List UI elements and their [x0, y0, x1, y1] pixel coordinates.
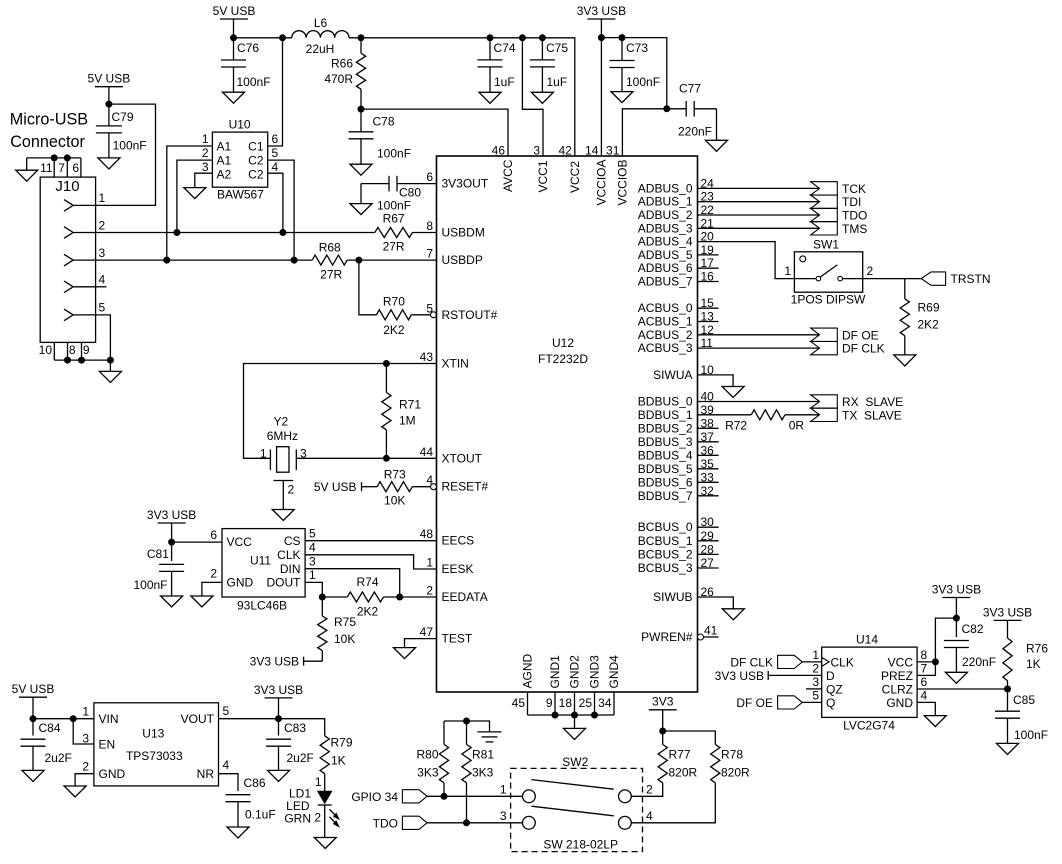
junction 5V/C76	[231, 35, 237, 41]
svg-text:41: 41	[704, 624, 718, 638]
svg-text:1K: 1K	[331, 754, 346, 768]
wire AVCC net	[361, 109, 508, 156]
wire to R74	[322, 596, 347, 598]
svg-text:C73: C73	[626, 41, 648, 55]
U14 QZ stub	[806, 688, 822, 690]
svg-text:100nF: 100nF	[133, 578, 167, 592]
svg-text:100nF: 100nF	[113, 138, 147, 152]
net flag DF CLK (out)	[811, 341, 838, 354]
wire XTIN net	[244, 364, 437, 459]
svg-text:PWREN#: PWREN#	[641, 630, 693, 644]
net flag TX SLAVE	[811, 408, 838, 421]
svg-text:VCC1: VCC1	[536, 160, 550, 192]
svg-text:ACBUS_2: ACBUS_2	[638, 328, 693, 342]
svg-text:3: 3	[82, 732, 89, 746]
svg-text:U11: U11	[250, 554, 271, 568]
svg-text:ADBUS_1: ADBUS_1	[638, 195, 693, 209]
junction USBDP/R70	[356, 257, 362, 263]
resistor R72 0R	[751, 410, 785, 420]
wire ACBUS_3 to DF CLK	[698, 347, 820, 349]
svg-text:TEST: TEST	[442, 632, 473, 646]
svg-text:C83: C83	[284, 721, 306, 735]
wire NR to C86	[219, 774, 239, 791]
svg-text:RESET#: RESET#	[442, 480, 489, 494]
IC U12 FT2232D body	[437, 156, 698, 692]
svg-text:ACBUS_0: ACBUS_0	[638, 301, 693, 315]
junction R81/TDO	[464, 820, 470, 826]
svg-text:48: 48	[420, 527, 434, 541]
svg-text:820R: 820R	[669, 766, 698, 780]
wire DF CLK to U14	[802, 661, 821, 663]
svg-text:100nF: 100nF	[377, 199, 411, 213]
svg-text:3V3 USB: 3V3 USB	[250, 655, 299, 669]
resistor R75 10K	[321, 597, 323, 616]
svg-text:2: 2	[82, 760, 89, 774]
svg-text:ADBUS_5: ADBUS_5	[638, 248, 693, 262]
net flag TDI	[811, 195, 838, 208]
svg-text:R73: R73	[384, 468, 406, 482]
junction USBDM/U10p2	[174, 230, 180, 236]
svg-text:EEDATA: EEDATA	[442, 590, 488, 604]
svg-text:2K2: 2K2	[918, 318, 940, 332]
svg-text:C86: C86	[244, 776, 266, 790]
svg-text:ADBUS_6: ADBUS_6	[638, 261, 693, 275]
wire 3V3 to R78	[663, 731, 716, 744]
svg-text:2: 2	[99, 218, 106, 232]
pin circle RSTOUT#	[431, 312, 437, 318]
wire U11 GND	[202, 582, 222, 596]
svg-text:4: 4	[223, 758, 230, 772]
svg-text:DOUT: DOUT	[267, 575, 302, 589]
svg-text:1K: 1K	[1026, 657, 1041, 671]
wire ADBUS to TCK	[698, 187, 820, 189]
svg-text:1: 1	[309, 568, 316, 582]
ground R69	[894, 355, 916, 366]
svg-text:1uF: 1uF	[547, 75, 568, 89]
svg-text:3: 3	[500, 809, 507, 823]
svg-text:BDBUS_6: BDBUS_6	[638, 475, 693, 489]
wire R68 to USBDP pin	[347, 259, 436, 261]
junction XTOUT/R71	[383, 455, 389, 461]
wire R80/R81 top	[444, 721, 490, 732]
wire DOUT to R74	[305, 582, 322, 597]
svg-text:1M: 1M	[399, 414, 416, 428]
svg-text:2: 2	[210, 567, 217, 581]
capacitor C74	[489, 38, 491, 60]
svg-text:J10: J10	[55, 178, 79, 195]
svg-text:27R: 27R	[383, 240, 405, 254]
junction C79/VBUS	[106, 101, 112, 107]
svg-text:TDO: TDO	[373, 816, 398, 830]
ground U13	[64, 786, 86, 797]
switch SW2 SW 218-02LP	[511, 768, 643, 851]
svg-text:5V USB: 5V USB	[213, 4, 256, 18]
wire CLRZ net	[917, 688, 1007, 690]
svg-text:34: 34	[598, 696, 612, 710]
svg-text:C85: C85	[1013, 693, 1035, 707]
svg-text:R68: R68	[319, 241, 341, 255]
power 3V3 USB (R76)	[994, 619, 1022, 621]
junction USBDP/U10p5	[291, 257, 297, 263]
wire J10 pin4 stub	[96, 286, 107, 288]
svg-text:BCBUS_1: BCBUS_1	[638, 534, 693, 548]
svg-text:C75: C75	[546, 41, 568, 55]
junction C81/VCC	[169, 539, 175, 545]
svg-text:QZ: QZ	[826, 682, 843, 696]
wire VCC up	[917, 618, 956, 662]
svg-text:U10: U10	[229, 118, 251, 132]
svg-text:GND3: GND3	[588, 655, 602, 689]
junction VCC1 tap	[519, 35, 525, 41]
svg-text:VCCIOB: VCCIOB	[615, 159, 629, 205]
svg-text:ACBUS_1: ACBUS_1	[638, 315, 693, 329]
svg-text:EESK: EESK	[442, 562, 474, 576]
net flag TMS	[811, 222, 838, 235]
svg-text:5V USB: 5V USB	[12, 682, 55, 696]
svg-text:XTIN: XTIN	[442, 357, 469, 371]
svg-text:100nF: 100nF	[377, 147, 411, 161]
wire GPIO34 to SW2.1	[427, 795, 522, 797]
svg-text:8: 8	[69, 343, 76, 357]
svg-text:SIWUA: SIWUA	[653, 368, 692, 382]
wire R74 to EEDATA	[384, 596, 437, 598]
wire CS to EECS	[305, 540, 436, 542]
svg-text:TMS: TMS	[842, 222, 867, 236]
wire ADBUS to TMS	[698, 227, 820, 229]
svg-text:C80: C80	[399, 186, 421, 200]
IC U14 LVC2G74	[822, 647, 917, 717]
resistor R67 27R	[375, 228, 413, 238]
wire BDBUS_1 to R72	[698, 414, 752, 416]
capacitor C76	[233, 38, 235, 60]
junction XTIN/R71	[383, 361, 389, 367]
ground C82	[945, 672, 967, 683]
resistor R70 2K2	[376, 310, 411, 320]
svg-text:VCCIOA: VCCIOA	[594, 159, 608, 205]
svg-text:5: 5	[812, 689, 819, 703]
IC U11 93LC46B	[222, 529, 305, 597]
svg-text:BDBUS_2: BDBUS_2	[638, 421, 693, 435]
svg-text:100nF: 100nF	[1014, 728, 1048, 742]
svg-text:GND: GND	[227, 575, 254, 589]
svg-text:42: 42	[558, 144, 572, 158]
wire J10 bottom gnd bus	[54, 359, 110, 361]
resistor R68 27R	[312, 255, 347, 265]
svg-text:R79: R79	[331, 736, 353, 750]
svg-text:8: 8	[921, 648, 928, 662]
capacitor C83	[278, 719, 280, 736]
junction GND2	[572, 712, 578, 718]
svg-text:3: 3	[812, 675, 819, 689]
svg-text:DF OE: DF OE	[736, 696, 773, 710]
junction R66 top	[358, 35, 364, 41]
resistor R69 2K2	[900, 299, 909, 336]
wire C80 to gnd	[360, 184, 362, 204]
svg-text:2: 2	[867, 264, 874, 278]
junction 3V3/VCCIOA	[598, 35, 604, 41]
svg-text:5: 5	[99, 301, 106, 315]
ground C84	[22, 770, 44, 781]
svg-text:C84: C84	[39, 721, 61, 735]
junction R81 top	[464, 718, 470, 724]
svg-text:18: 18	[559, 696, 573, 710]
wire 3V3 to C77 node	[601, 38, 666, 109]
svg-text:TPS73033: TPS73033	[126, 749, 183, 763]
ground C79	[98, 158, 120, 169]
svg-text:SW2: SW2	[562, 755, 588, 769]
svg-text:31: 31	[606, 144, 620, 158]
diode array U10 BAW567	[212, 132, 267, 187]
ground C76	[223, 92, 245, 103]
svg-text:SIWUB: SIWUB	[653, 590, 692, 604]
svg-text:VCC2: VCC2	[568, 161, 582, 193]
wire U10 pin6 to 5V	[268, 38, 283, 146]
svg-text:R72: R72	[725, 419, 747, 433]
earth ground R80/R81	[478, 731, 502, 733]
svg-text:44: 44	[420, 445, 434, 459]
svg-text:220nF: 220nF	[962, 655, 996, 669]
resistor R76 1K	[1003, 638, 1012, 681]
svg-text:R66: R66	[331, 57, 353, 71]
svg-text:NR: NR	[197, 767, 215, 781]
svg-text:5: 5	[272, 146, 279, 160]
svg-text:BDBUS_7: BDBUS_7	[638, 489, 693, 503]
junction USBDP/U10p1	[164, 257, 170, 263]
ground U10 A2	[184, 188, 206, 199]
wire VCC1 net	[522, 38, 543, 156]
wire VCC/PREZ tie	[917, 662, 935, 676]
ground Y2 case	[272, 510, 294, 521]
svg-text:3: 3	[99, 246, 106, 260]
junction 3V3/C82	[953, 615, 959, 621]
wire USBDP net	[96, 259, 313, 261]
svg-text:GND2: GND2	[568, 655, 582, 689]
svg-text:PREZ: PREZ	[881, 669, 913, 683]
inductor L6 22uH	[292, 31, 349, 38]
svg-text:8: 8	[426, 219, 433, 233]
svg-text:ADBUS_7: ADBUS_7	[638, 275, 693, 289]
svg-text:SW 218-02LP: SW 218-02LP	[543, 837, 618, 851]
junction pin8 gnd	[65, 357, 71, 363]
svg-text:C1: C1	[248, 139, 264, 153]
capacitor C79	[108, 104, 110, 126]
ground C83	[268, 770, 290, 781]
svg-text:VOUT: VOUT	[181, 712, 215, 726]
svg-text:1POS DIPSW: 1POS DIPSW	[791, 293, 866, 307]
svg-text:GND1: GND1	[548, 655, 562, 689]
wire U10 pin5 to USBDP	[268, 160, 294, 260]
power 3V3 (SW2)	[649, 709, 677, 711]
connector J10 Micro-USB	[40, 177, 95, 342]
wire ADBUS to TDO	[698, 214, 820, 216]
wire GND bus	[528, 714, 615, 716]
junction R80/GPIO34	[441, 793, 447, 799]
capacitor C75	[541, 38, 543, 60]
wire U10 pin1 to USBDP	[167, 146, 213, 260]
svg-text:9: 9	[546, 696, 553, 710]
wire VCCIOB net	[622, 109, 666, 156]
resistor R78 820R	[711, 744, 720, 782]
capacitor C78	[360, 109, 362, 132]
svg-text:VCC: VCC	[227, 535, 253, 549]
resistor R71 1M	[385, 364, 387, 393]
svg-text:R76: R76	[1026, 642, 1048, 656]
svg-text:A1: A1	[217, 139, 232, 153]
svg-text:ADBUS_0: ADBUS_0	[638, 181, 693, 195]
wire R73 to RESET#	[412, 486, 430, 488]
ground C81	[161, 596, 183, 607]
svg-text:RSTOUT#: RSTOUT#	[442, 308, 498, 322]
junction C74	[487, 35, 493, 41]
wire 3V3 to U11 VCC	[172, 541, 222, 543]
net flag TCK	[811, 182, 838, 195]
svg-text:CLK: CLK	[277, 548, 300, 562]
svg-text:3: 3	[202, 160, 209, 174]
wire SW2.4 to R78	[631, 783, 715, 823]
svg-text:C77: C77	[679, 82, 701, 96]
junction pin9 gnd	[79, 357, 85, 363]
svg-text:Micro-USB: Micro-USB	[10, 111, 88, 129]
net flag DF OE (out)	[811, 328, 838, 341]
svg-text:4: 4	[921, 689, 928, 703]
ground J10 pins	[99, 371, 121, 382]
svg-text:7: 7	[426, 247, 433, 261]
svg-text:220nF: 220nF	[678, 125, 712, 139]
svg-text:R75: R75	[334, 615, 356, 629]
svg-text:3V3 USB: 3V3 USB	[147, 508, 196, 522]
svg-text:2: 2	[426, 584, 433, 598]
svg-text:5: 5	[309, 527, 316, 541]
junction U10 C1 tap	[280, 35, 286, 41]
resistor R77 820R	[662, 731, 664, 744]
capacitor C84	[32, 719, 34, 736]
capacitor C81	[171, 542, 173, 561]
svg-text:R78: R78	[721, 748, 743, 762]
svg-text:BAW567: BAW567	[217, 188, 264, 202]
svg-text:3V3 USB: 3V3 USB	[254, 683, 303, 697]
net flag TRSTN	[921, 272, 945, 285]
capacitor C73	[621, 38, 623, 61]
svg-text:9: 9	[83, 343, 90, 357]
svg-text:1: 1	[260, 447, 267, 461]
svg-text:BCBUS_0: BCBUS_0	[638, 520, 693, 534]
svg-text:0.1uF: 0.1uF	[245, 807, 276, 821]
wire R69 branch	[904, 279, 906, 299]
svg-text:C82: C82	[962, 622, 984, 636]
svg-text:3V3 USB: 3V3 USB	[983, 605, 1032, 619]
svg-text:TDI: TDI	[842, 195, 861, 209]
svg-text:GND: GND	[886, 696, 913, 710]
wire 3V3 to D	[768, 674, 822, 676]
svg-text:VCC: VCC	[888, 655, 914, 669]
svg-text:RX SLAVE: RX SLAVE	[842, 395, 903, 409]
wire DF OE to U14	[802, 701, 821, 703]
svg-text:10K: 10K	[334, 632, 355, 646]
svg-text:ADBUS_2: ADBUS_2	[638, 208, 693, 222]
svg-text:1uF: 1uF	[494, 75, 515, 89]
svg-text:C79: C79	[112, 110, 134, 124]
svg-text:DF OE: DF OE	[842, 328, 879, 342]
capacitor C85	[1007, 689, 1009, 711]
svg-text:470R: 470R	[324, 72, 353, 86]
power 5V USB (C79 node)	[95, 86, 123, 88]
IC U13 TPS73033	[94, 703, 219, 786]
wire R69 to gnd	[904, 336, 906, 355]
svg-text:EECS: EECS	[442, 534, 475, 548]
capacitor C80 100nF	[361, 183, 389, 185]
svg-text:3: 3	[300, 447, 307, 461]
svg-text:C2: C2	[248, 167, 264, 181]
svg-text:11: 11	[40, 161, 53, 175]
svg-text:L6: L6	[314, 16, 328, 30]
net flag RX SLAVE	[811, 395, 838, 408]
svg-text:A2: A2	[217, 167, 232, 181]
wire EN tie	[73, 719, 94, 744]
svg-text:1: 1	[426, 556, 433, 570]
wire 5V to R73	[362, 486, 378, 488]
svg-text:U12: U12	[552, 336, 574, 350]
svg-text:Connector: Connector	[10, 133, 85, 151]
svg-text:2K2: 2K2	[383, 323, 405, 337]
svg-text:TRSTN: TRSTN	[951, 272, 991, 286]
svg-text:ADBUS_4: ADBUS_4	[638, 235, 693, 249]
wire U13 GND	[75, 774, 94, 786]
wire VCCIOA net	[600, 38, 602, 156]
ground C85	[997, 743, 1019, 754]
svg-text:SW1: SW1	[813, 238, 839, 252]
wire BDBUS_0 to RX SLAVE	[698, 401, 820, 403]
svg-text:C74: C74	[494, 41, 516, 55]
svg-text:C81: C81	[147, 547, 169, 561]
U12 bottom pin names, numbers, stubs	[527, 692, 529, 715]
svg-text:A1: A1	[217, 153, 232, 167]
ground J10 shield	[16, 170, 38, 181]
wire CLK to EESK	[305, 555, 436, 569]
svg-text:BDBUS_5: BDBUS_5	[638, 462, 693, 476]
svg-text:4: 4	[99, 273, 106, 287]
svg-text:100nF: 100nF	[626, 75, 660, 89]
svg-text:BCBUS_3: BCBUS_3	[638, 561, 693, 575]
wire SW1 to TRSTN	[863, 278, 922, 280]
junction VOUT/C83	[276, 716, 282, 722]
svg-text:3V3 USB: 3V3 USB	[577, 4, 626, 18]
junction 3V3/R77	[660, 728, 666, 734]
resistor R74 2K2	[347, 592, 383, 602]
svg-text:1: 1	[99, 191, 106, 205]
svg-text:820R: 820R	[721, 766, 750, 780]
svg-text:C2: C2	[248, 153, 264, 167]
junction R74/DIN	[397, 594, 403, 600]
svg-text:USBDM: USBDM	[442, 226, 485, 240]
svg-text:46: 46	[492, 144, 506, 158]
svg-text:R69: R69	[918, 301, 940, 315]
wire ADBUS to TDI	[698, 201, 820, 203]
wire SIWUB to gnd	[698, 597, 734, 609]
junction GND1	[552, 712, 558, 718]
svg-text:25: 25	[579, 696, 593, 710]
svg-text:7: 7	[58, 161, 65, 175]
wire R72 to TX SLAVE	[785, 414, 820, 416]
junction VCCIOB/C77	[664, 106, 670, 112]
svg-text:R77: R77	[669, 748, 691, 762]
svg-text:DIN: DIN	[280, 562, 301, 576]
ground U14	[924, 716, 946, 727]
ground C86	[227, 827, 249, 838]
ground LD1	[314, 838, 336, 849]
wire ACBUS_2 to DF OE	[698, 334, 820, 336]
svg-text:27R: 27R	[320, 268, 342, 282]
svg-text:47: 47	[420, 625, 434, 639]
